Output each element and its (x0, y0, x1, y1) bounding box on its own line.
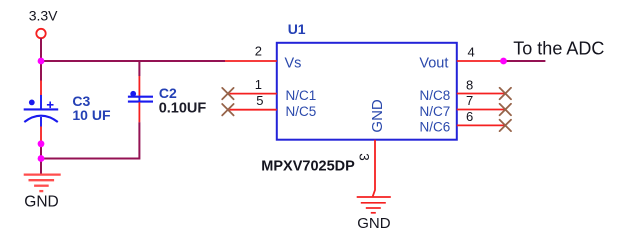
junction dot C (38, 155, 45, 162)
no-connect X pin 7 (500, 104, 511, 115)
pin 5 wire (229, 109, 276, 111)
pin 8 wire (457, 93, 506, 95)
svg-text:0.10UF: 0.10UF (159, 100, 207, 116)
svg-text:4: 4 (468, 45, 475, 60)
svg-text:N/C7: N/C7 (420, 104, 451, 119)
svg-text:10 UF: 10 UF (72, 107, 111, 123)
IC U1 box (277, 43, 457, 140)
wire to ADC (504, 60, 546, 62)
svg-text:MPXV7025DP: MPXV7025DP (261, 159, 355, 175)
svg-text:8: 8 (466, 78, 473, 93)
svg-text:C2: C2 (159, 85, 177, 101)
pin 4 wire (457, 60, 504, 62)
pin 2 wire (225, 60, 277, 62)
no-connect X pin 1 (222, 88, 233, 99)
wire top rail (41, 60, 225, 62)
svg-text:GND: GND (357, 215, 391, 232)
junction dot D (500, 58, 507, 65)
svg-text:U1: U1 (288, 21, 306, 37)
svg-text:N/C8: N/C8 (420, 88, 451, 103)
capacitor C3 (24, 81, 59, 142)
junction dot A (38, 58, 45, 65)
svg-text:GND: GND (24, 193, 58, 210)
svg-text:1: 1 (255, 77, 262, 92)
svg-text:GND: GND (369, 99, 386, 133)
svg-text:N/C1: N/C1 (286, 88, 317, 103)
power symbol 3.3V (29, 7, 58, 38)
no-connect X pin 5 (222, 104, 233, 115)
svg-text:7: 7 (466, 93, 473, 108)
svg-text:3.3V: 3.3V (29, 7, 58, 23)
ground symbol right (357, 197, 391, 213)
svg-text:6: 6 (466, 109, 473, 124)
svg-text:Vout: Vout (419, 56, 448, 72)
wire 3.3V to top rail junction (40, 38, 42, 80)
svg-text:N/C6: N/C6 (420, 120, 451, 135)
junction dot B (38, 140, 45, 147)
pin 1 wire (229, 93, 276, 95)
no-connect X pin 6 (500, 120, 511, 131)
svg-text:3: 3 (356, 153, 371, 161)
svg-text:2: 2 (255, 43, 262, 58)
svg-text:Vs: Vs (285, 56, 302, 72)
svg-text:To the ADC: To the ADC (513, 39, 604, 59)
pin 3 wire (373, 140, 375, 197)
capacitor C2 (128, 76, 153, 122)
ground symbol left (24, 159, 61, 192)
svg-text:N/C5: N/C5 (286, 104, 317, 119)
no-connect X pin 8 (500, 88, 511, 99)
pin 7 wire (457, 109, 506, 111)
wire between junctions (40, 144, 42, 159)
svg-text:5: 5 (256, 93, 263, 108)
wire C2 bottom branch (41, 122, 139, 158)
pin 6 wire (457, 124, 506, 126)
wire C2 top branch (138, 61, 140, 76)
